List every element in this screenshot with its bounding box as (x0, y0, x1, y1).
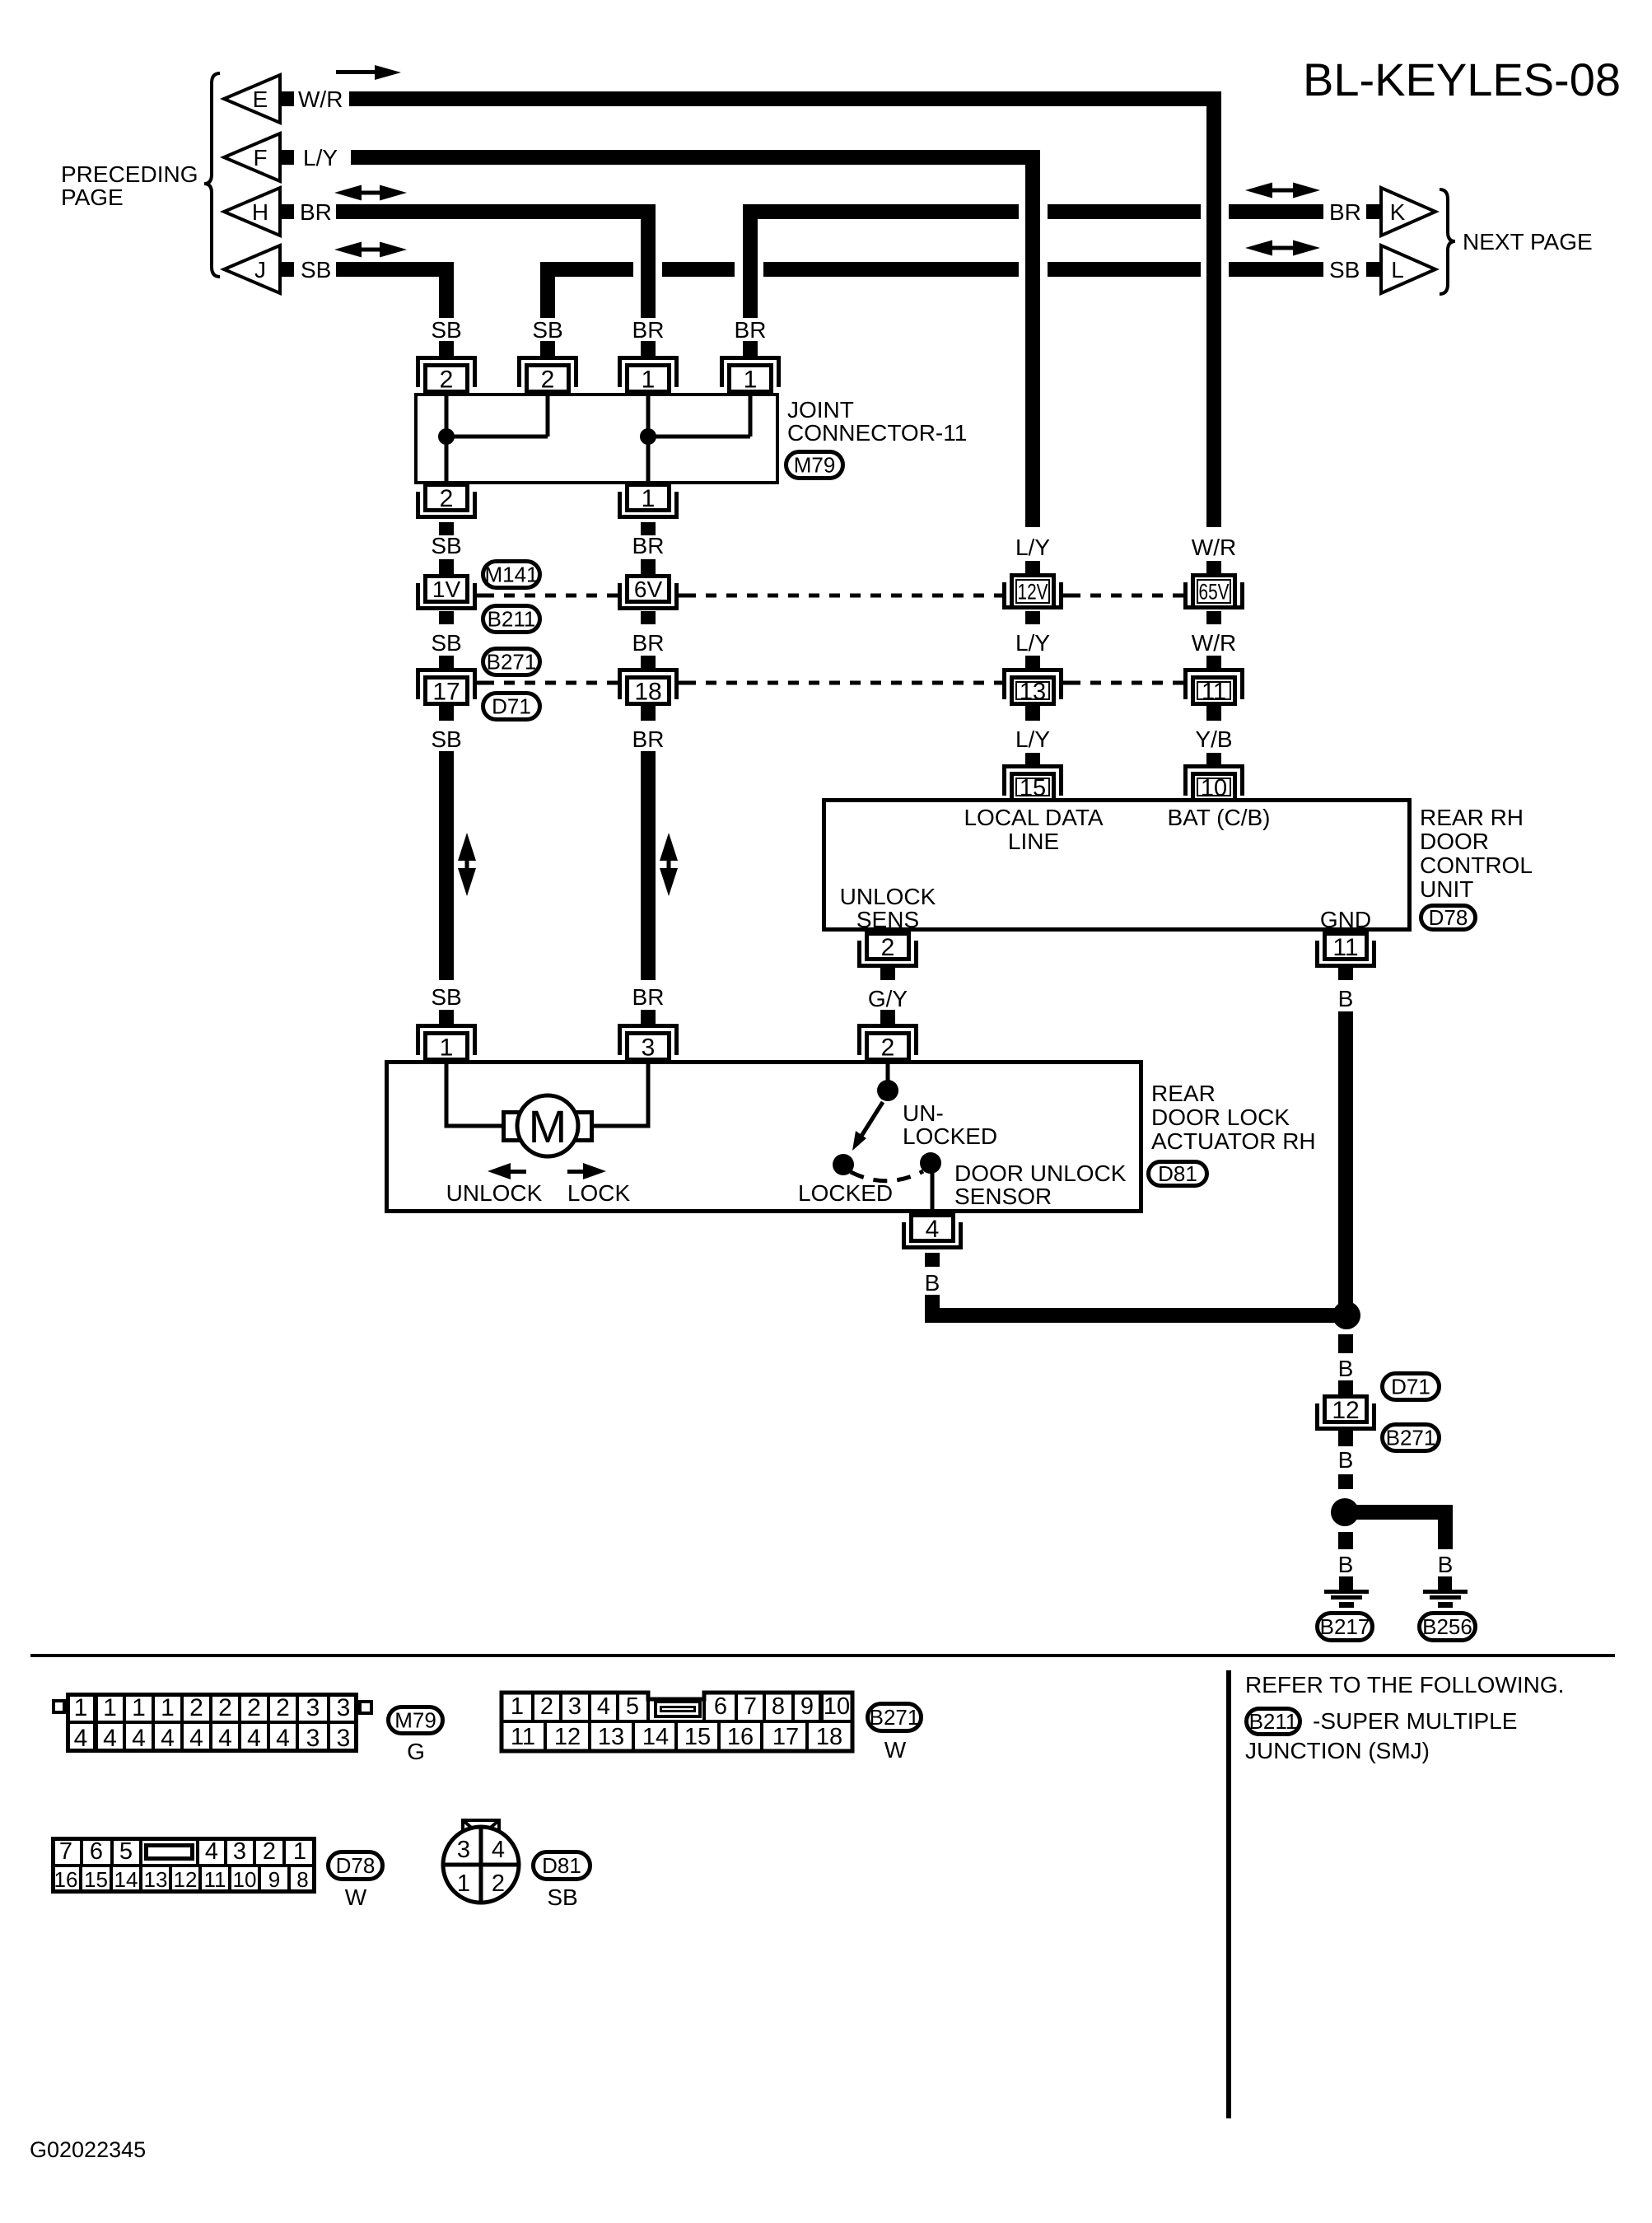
svg-text:B: B (1438, 1552, 1454, 1577)
svg-text:LOCKED: LOCKED (903, 1123, 997, 1149)
svg-text:14: 14 (114, 1867, 138, 1892)
svg-text:11: 11 (204, 1867, 226, 1892)
svg-text:2: 2 (247, 1694, 261, 1721)
stub above row2 1474 (1206, 656, 1221, 669)
svg-text:1: 1 (132, 1694, 146, 1721)
svg-text:18: 18 (634, 678, 661, 705)
svg-text:M: M (529, 1100, 567, 1152)
stub below joint pin 787 (641, 522, 656, 535)
svg-text:15: 15 (684, 1724, 711, 1750)
joint connector pin 1 (BR2) (720, 356, 781, 387)
actuator pin 4 (909, 1213, 955, 1243)
svg-text:SB: SB (431, 533, 461, 558)
stub above pin at 787 (641, 341, 656, 357)
actuator pin 2 (857, 1024, 918, 1055)
arrow unlock direction (511, 1170, 526, 1174)
svg-text:LOCK: LOCK (567, 1180, 631, 1206)
svg-text:BR: BR (1329, 199, 1361, 225)
joint connector pin 1 bottom (625, 483, 671, 512)
stub below pin 2 (880, 968, 895, 980)
svg-text:L/Y: L/Y (1015, 535, 1050, 560)
svg-text:B271: B271 (1386, 1426, 1436, 1450)
svg-text:-SUPER MULTIPLE: -SUPER MULTIPLE (1313, 1708, 1517, 1734)
svg-text:LOCAL DATA: LOCAL DATA (964, 805, 1103, 830)
svg-text:DOOR: DOOR (1420, 829, 1489, 854)
stub above actuator pin 787 (641, 1010, 656, 1024)
svg-text:SB: SB (431, 726, 461, 752)
wire pin1 to motor (446, 1061, 502, 1126)
stub below pin 11 (1338, 968, 1353, 980)
motor right brush (575, 1113, 592, 1141)
stub below row2 787 (641, 706, 656, 721)
id B271 bottom (868, 1704, 922, 1731)
stub K (1366, 204, 1381, 219)
page connector L (1381, 245, 1435, 293)
svg-text:NEXT PAGE: NEXT PAGE (1463, 229, 1593, 255)
svg-text:DOOR UNLOCK: DOOR UNLOCK (954, 1161, 1127, 1186)
actuator id D81 (1149, 1162, 1207, 1186)
wire L/Y horizontal (351, 150, 1040, 165)
svg-text:1: 1 (440, 1034, 454, 1061)
stub below 12 (1338, 1431, 1353, 1446)
wire SB long vertical (439, 751, 454, 980)
svg-text:4: 4 (74, 1725, 88, 1752)
ground id B217 (1318, 1614, 1373, 1641)
stub F (280, 150, 294, 165)
connector id M79 (786, 452, 843, 479)
actuator pin 3 (618, 1024, 679, 1055)
REAR DOOR LOCK ACTUATOR RH box (385, 1060, 1143, 1213)
control unit pin 15 (1002, 764, 1063, 796)
stub above SMJ connector 542 (439, 559, 454, 574)
junction node BR (640, 428, 656, 445)
svg-text:ACTUATOR RH: ACTUATOR RH (1151, 1128, 1316, 1154)
joint connector internal wires BR (646, 393, 651, 483)
svg-text:1: 1 (511, 1693, 524, 1720)
wire SB vertical drop 2 (540, 262, 555, 318)
stub above actuator pin 542 (439, 1010, 454, 1024)
svg-text:G02022345: G02022345 (30, 2137, 146, 2162)
wire SB left segment (336, 262, 454, 277)
stub below joint pin 542 (439, 522, 454, 535)
id D81 bottom (534, 1852, 590, 1880)
stub above pin at 911 (743, 341, 758, 357)
svg-text:D78: D78 (1429, 905, 1468, 930)
svg-text:PRECEDING: PRECEDING (61, 161, 198, 187)
svg-text:BR: BR (632, 630, 665, 656)
B271 connector face grid (502, 1693, 852, 1751)
double arrow above SB right (1245, 241, 1272, 256)
svg-text:L: L (1391, 257, 1404, 283)
svg-text:15: 15 (84, 1867, 108, 1892)
svg-text:4: 4 (492, 1837, 505, 1863)
double arrow above SB left (334, 242, 362, 258)
control unit pin 11 (GND) (1323, 932, 1369, 961)
svg-text:B: B (1338, 1552, 1354, 1577)
connector 11 (1183, 668, 1244, 699)
wire BR vertical drop 2 (743, 204, 758, 318)
stub above junction 2 (1338, 1474, 1353, 1489)
svg-text:4: 4 (161, 1725, 175, 1752)
svg-text:2: 2 (263, 1838, 276, 1865)
svg-text:JOINT: JOINT (787, 397, 854, 423)
joint connector pin 1 (BR) (618, 356, 679, 387)
stub above SMJ connector 787 (641, 559, 656, 574)
stub above row2 1254 (1025, 656, 1040, 669)
svg-text:4: 4 (926, 1216, 940, 1243)
control unit pin 2 (UNLOCK SENS) (865, 932, 911, 961)
svg-text:W: W (345, 1884, 367, 1910)
svg-text:SB: SB (547, 1884, 577, 1910)
brace preceding page (204, 73, 220, 277)
svg-text:3: 3 (337, 1694, 351, 1721)
svg-text:BL-KEYLES-08: BL-KEYLES-08 (1303, 54, 1621, 105)
stub above pin at 665 (540, 341, 555, 357)
svg-text:SB: SB (532, 317, 562, 343)
svg-text:L/Y: L/Y (303, 145, 338, 170)
svg-text:1V: 1V (432, 577, 461, 602)
stub above pin 1254 (1025, 753, 1040, 765)
svg-text:REFER TO THE FOLLOWING.: REFER TO THE FOLLOWING. (1245, 1672, 1564, 1698)
page connector F (224, 133, 280, 181)
svg-text:Y/B: Y/B (1195, 726, 1232, 752)
stub below row2 1474 (1206, 706, 1221, 721)
connector 12V (1010, 573, 1056, 609)
svg-text:B217: B217 (1320, 1614, 1370, 1639)
svg-text:14: 14 (642, 1724, 669, 1750)
svg-text:BR: BR (632, 984, 665, 1010)
svg-text:SB: SB (431, 317, 461, 343)
svg-text:K: K (1390, 199, 1406, 225)
svg-text:8: 8 (296, 1867, 308, 1892)
switch travel arc (851, 1171, 923, 1181)
svg-text:16: 16 (727, 1724, 754, 1750)
svg-text:SENSOR: SENSOR (954, 1184, 1052, 1209)
svg-text:10: 10 (233, 1867, 257, 1892)
svg-text:B271: B271 (487, 650, 537, 675)
svg-text:PAGE: PAGE (61, 184, 124, 210)
wire BR left segment (336, 204, 656, 219)
stub above actuator pin 2 (880, 1010, 895, 1024)
page connector K (1381, 188, 1435, 236)
svg-text:4: 4 (597, 1693, 610, 1720)
svg-text:4: 4 (189, 1725, 203, 1752)
svg-text:B: B (1338, 986, 1354, 1011)
svg-text:UN-: UN- (903, 1100, 944, 1126)
stub J (280, 262, 294, 277)
svg-text:4: 4 (132, 1725, 146, 1752)
svg-text:65V: 65V (1199, 580, 1230, 605)
svg-text:1: 1 (74, 1694, 88, 1721)
arrow right above W/R (336, 70, 376, 74)
svg-text:UNIT: UNIT (1420, 876, 1473, 902)
updown arrow BR (660, 833, 678, 861)
switch arm (859, 1102, 883, 1140)
svg-text:16: 16 (54, 1867, 78, 1892)
svg-text:GND: GND (1320, 907, 1371, 932)
stub H (280, 204, 294, 219)
id B211 footer (1247, 1709, 1300, 1735)
wire B branch right (1345, 1505, 1453, 1520)
svg-text:5: 5 (626, 1693, 639, 1720)
svg-text:11: 11 (1332, 934, 1358, 961)
svg-text:G/Y: G/Y (868, 986, 908, 1011)
svg-text:B: B (1338, 1447, 1354, 1473)
svg-text:1: 1 (161, 1694, 175, 1721)
svg-text:4: 4 (103, 1725, 117, 1752)
page connector E (224, 75, 280, 123)
svg-text:J: J (254, 257, 266, 283)
svg-text:17: 17 (772, 1724, 799, 1750)
junction node B (1332, 1301, 1360, 1329)
svg-text:B271: B271 (870, 1705, 920, 1730)
svg-text:M79: M79 (794, 453, 836, 478)
separator line (30, 1654, 1615, 1657)
svg-text:BAT (C/B): BAT (C/B) (1168, 805, 1271, 830)
svg-text:3: 3 (337, 1725, 351, 1752)
svg-text:LOCKED: LOCKED (798, 1180, 893, 1206)
connector 1V (M141/B211) (423, 574, 469, 604)
svg-text:1: 1 (642, 485, 656, 512)
svg-text:11: 11 (1202, 679, 1226, 705)
wire SB right segment (540, 262, 633, 277)
ground symbol right (1423, 1590, 1468, 1594)
svg-text:3: 3 (568, 1693, 581, 1720)
stub above pin at 542 (439, 341, 454, 357)
stub above ground left (1339, 1576, 1353, 1590)
D78 connector face grid (51, 1837, 316, 1894)
svg-text:17: 17 (432, 678, 460, 705)
svg-text:6: 6 (714, 1693, 727, 1720)
svg-text:12V: 12V (1018, 580, 1048, 605)
joint connector internal wires SB (445, 393, 449, 483)
svg-text:DOOR LOCK: DOOR LOCK (1151, 1104, 1290, 1130)
svg-text:BR: BR (632, 533, 665, 558)
svg-text:13: 13 (144, 1867, 168, 1892)
connector 17 (B271/D71) (416, 668, 477, 699)
REAR RH DOOR CONTROL UNIT box (822, 798, 1412, 932)
stub above row2 787 (641, 656, 656, 669)
brace next page (1440, 189, 1455, 294)
wire BR right segment (743, 204, 1019, 219)
stub above 12V (1025, 561, 1040, 574)
svg-text:M79: M79 (394, 1708, 436, 1733)
stub below row1 1254 (1025, 611, 1040, 624)
stub below row1 787 (641, 611, 656, 624)
svg-text:3: 3 (233, 1838, 246, 1865)
motor left brush (504, 1113, 521, 1141)
svg-text:4: 4 (247, 1725, 261, 1752)
svg-text:2: 2 (541, 366, 555, 393)
svg-text:REAR: REAR (1151, 1081, 1216, 1106)
page connector H (224, 188, 280, 236)
svg-text:5: 5 (119, 1838, 133, 1865)
contact LOCKED (833, 1154, 854, 1175)
svg-text:3: 3 (457, 1837, 470, 1863)
stub below junction (1338, 1334, 1353, 1353)
svg-text:13: 13 (598, 1724, 624, 1750)
id B271 right (1383, 1425, 1440, 1451)
svg-text:BR: BR (632, 726, 665, 752)
svg-text:CONTROL: CONTROL (1420, 852, 1533, 878)
svg-text:D71: D71 (1391, 1375, 1430, 1399)
svg-text:E: E (253, 86, 268, 112)
stub below pin 4 (925, 1253, 940, 1267)
svg-text:H: H (252, 199, 268, 225)
footer divider vertical (1226, 1670, 1231, 2118)
svg-text:SB: SB (431, 630, 461, 656)
svg-text:4: 4 (205, 1838, 218, 1865)
id B211 (483, 606, 540, 633)
double arrow above BR right (1245, 183, 1272, 198)
stub above row2 542 (439, 656, 454, 669)
svg-text:CONNECTOR-11: CONNECTOR-11 (787, 420, 967, 446)
svg-text:3: 3 (306, 1725, 320, 1752)
svg-text:W: W (884, 1737, 907, 1763)
svg-text:B211: B211 (1249, 1709, 1298, 1734)
M79 connector face grid (52, 1699, 66, 1714)
svg-text:B256: B256 (1422, 1614, 1472, 1639)
page connector J (224, 245, 280, 293)
svg-text:BR: BR (735, 317, 767, 343)
actuator pin 1 (416, 1024, 477, 1055)
svg-text:7: 7 (744, 1693, 757, 1720)
id M79 bottom (389, 1707, 443, 1734)
svg-text:JUNCTION (SMJ): JUNCTION (SMJ) (1245, 1738, 1430, 1763)
svg-text:6: 6 (90, 1838, 103, 1865)
svg-text:9: 9 (800, 1693, 814, 1720)
svg-text:10: 10 (1201, 775, 1227, 801)
svg-text:G: G (407, 1739, 425, 1764)
id D78 bottom (329, 1852, 383, 1880)
arrow lock direction (567, 1170, 583, 1174)
svg-text:12: 12 (554, 1724, 581, 1750)
wire W/R horizontal (349, 91, 1221, 106)
svg-text:12: 12 (1332, 1397, 1359, 1424)
stub above 65V (1206, 561, 1221, 574)
wire SB vertical drop 1 (439, 262, 454, 318)
wire B from pin 4 (925, 1295, 940, 1323)
joint connector pin 2 (SB) (416, 356, 477, 387)
stub below row2 542 (439, 706, 454, 721)
svg-text:4: 4 (276, 1725, 290, 1752)
joint connector pin 2 (SB2) (517, 356, 578, 387)
svg-text:1: 1 (457, 1870, 470, 1897)
D81 connector face (443, 1827, 519, 1903)
svg-text:1: 1 (744, 366, 758, 393)
svg-text:SB: SB (301, 257, 331, 283)
wire BR long vertical (641, 751, 656, 980)
svg-text:18: 18 (816, 1724, 842, 1750)
svg-text:13: 13 (1020, 679, 1046, 705)
svg-text:6V: 6V (634, 577, 663, 602)
svg-text:REAR RH: REAR RH (1420, 805, 1524, 830)
svg-text:B211: B211 (488, 607, 536, 632)
unit id D78 (1421, 906, 1476, 930)
wire BR vertical drop 1 (641, 204, 656, 318)
svg-text:11: 11 (511, 1724, 535, 1750)
svg-text:2: 2 (440, 485, 454, 512)
svg-text:2: 2 (440, 366, 454, 393)
stub below row1 1474 (1206, 611, 1221, 624)
wire L/Y vertical (1025, 150, 1040, 527)
svg-text:8: 8 (772, 1693, 785, 1720)
dashed SMJ line row 1 (483, 594, 611, 598)
svg-text:12: 12 (174, 1867, 198, 1892)
stub below row1 542 (439, 611, 454, 624)
updown arrow SB (458, 833, 476, 861)
svg-text:1: 1 (293, 1838, 306, 1865)
svg-text:UNLOCK: UNLOCK (446, 1180, 543, 1206)
contact UNLOCKED (sensor) (920, 1152, 941, 1174)
svg-text:L/Y: L/Y (1015, 630, 1050, 656)
wire pin3 to motor (593, 1061, 648, 1126)
svg-text:2: 2 (492, 1870, 505, 1897)
joint connector JOINT CONNECTOR-11 box (414, 393, 779, 484)
switch feed line (886, 1061, 890, 1081)
svg-text:2: 2 (881, 934, 895, 961)
svg-text:7: 7 (59, 1838, 72, 1865)
svg-text:W/R: W/R (298, 86, 343, 112)
stub above 12 (1338, 1380, 1353, 1394)
svg-text:3: 3 (306, 1694, 320, 1721)
svg-text:D81: D81 (1158, 1161, 1197, 1186)
switch common node (877, 1080, 898, 1101)
svg-text:1: 1 (642, 366, 656, 393)
D81 connector keyway (463, 1820, 499, 1836)
double arrow above BR left (334, 185, 362, 201)
svg-text:SB: SB (1329, 257, 1360, 283)
wire W/R vertical (1206, 91, 1221, 527)
control unit pin 10 (1183, 764, 1244, 796)
svg-text:2: 2 (540, 1693, 553, 1720)
stub L (1366, 262, 1381, 277)
svg-text:LINE: LINE (1008, 829, 1059, 854)
id D71 right (1383, 1374, 1440, 1400)
id D71 (483, 694, 540, 720)
svg-text:F: F (253, 145, 267, 170)
svg-text:M141: M141 (484, 563, 538, 587)
connector 6V (625, 574, 671, 604)
svg-text:W/R: W/R (1192, 535, 1236, 560)
svg-text:UNLOCK: UNLOCK (840, 884, 936, 909)
svg-text:SB: SB (431, 984, 461, 1010)
svg-text:1: 1 (103, 1694, 117, 1721)
svg-text:L/Y: L/Y (1015, 726, 1050, 752)
connector 65V (1191, 573, 1237, 609)
ground symbol left (1324, 1590, 1369, 1594)
svg-text:3: 3 (642, 1034, 656, 1061)
svg-text:2: 2 (218, 1694, 232, 1721)
stub E (280, 91, 294, 106)
junction node B 2 (1331, 1498, 1359, 1526)
svg-text:2: 2 (881, 1034, 895, 1061)
id B271 (483, 649, 540, 675)
svg-text:SENS: SENS (856, 907, 919, 932)
joint connector pin 2 bottom (423, 483, 469, 512)
sensor output line (931, 1166, 935, 1213)
svg-text:BR: BR (632, 317, 665, 343)
connector 13 (1002, 668, 1063, 699)
stub above pin 1474 (1206, 753, 1221, 765)
connector 12 (D71/B271) (1323, 1394, 1369, 1424)
junction node SB (438, 428, 455, 445)
svg-text:W/R: W/R (1192, 630, 1236, 656)
stub above ground right (1438, 1576, 1452, 1590)
connector 18 (618, 668, 679, 699)
svg-text:D81: D81 (542, 1853, 581, 1878)
svg-text:D78: D78 (336, 1853, 376, 1878)
